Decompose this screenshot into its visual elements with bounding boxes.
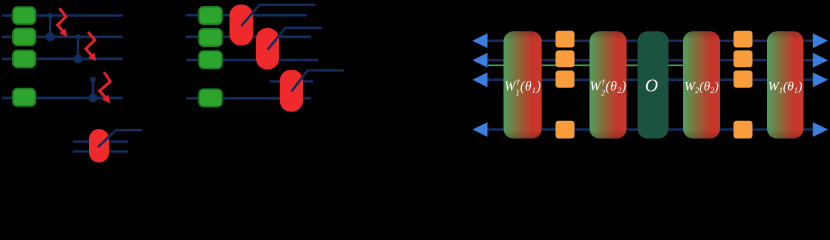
kraus square column2 s1 — [734, 31, 753, 48]
output arrow 4 — [813, 122, 828, 137]
environment line 2 — [268, 28, 322, 50]
noise bolt 2 — [86, 32, 97, 61]
output arrow 2 — [813, 53, 828, 68]
svg-text:O: O — [645, 75, 658, 95]
unitary capsule W2 — [683, 31, 720, 138]
kraus square column2 s4 — [734, 121, 753, 139]
noisy channel capsule 3 (q(n-1)-qn) — [280, 70, 303, 112]
CZ connector 3 (q(n-1)-qn) — [89, 77, 98, 103]
kraus square column1 s3 — [556, 71, 575, 88]
svg-text:W2(θ2): W2(θ2) — [684, 79, 719, 96]
kraus square column2 s3 — [734, 71, 753, 88]
wire q1 — [2, 14, 123, 17]
unitary capsule W1dag — [504, 31, 542, 138]
kraus square column1 s4 — [556, 121, 575, 139]
observable capsule O — [638, 31, 669, 138]
legend environment line — [98, 130, 142, 147]
gate box U qn — [199, 89, 222, 106]
wire b1 — [486, 39, 813, 42]
unitary capsule W2dag — [590, 31, 627, 138]
CZ connector 2 (q2-q3) — [74, 34, 83, 63]
gate box U qn — [13, 89, 36, 106]
input arrow 4 — [473, 122, 488, 137]
gate box U q3 — [199, 51, 222, 68]
wire b2 — [486, 59, 813, 62]
wire q2 — [186, 35, 311, 38]
noise bolt 3 — [100, 72, 111, 103]
wire qn — [186, 97, 311, 100]
wire q1 — [186, 14, 307, 17]
input arrow 2 — [473, 53, 488, 68]
wire q3 — [2, 57, 123, 60]
kraus square column1 s1 — [556, 31, 575, 48]
wire b4 — [486, 128, 813, 131]
noise bolt 1 — [58, 8, 68, 37]
wire q2 — [2, 35, 123, 38]
gate box U q1 — [199, 7, 222, 24]
kraus square column2 s2 — [734, 50, 753, 67]
svg-text:W1(θ1): W1(θ1) — [768, 79, 803, 96]
input arrow 3 — [473, 72, 488, 87]
wire b3 — [486, 79, 813, 82]
gate box U q2 — [13, 28, 36, 45]
legend noisy-gate capsule — [89, 129, 109, 163]
wire qn — [2, 97, 123, 100]
legend wire a — [73, 140, 129, 142]
output arrow 3 — [813, 72, 828, 87]
noisy channel capsule 2 (q2-q3) — [256, 28, 279, 70]
gate box U q3 — [13, 50, 36, 67]
kraus square column1 s2 — [556, 50, 575, 67]
wire q(n-1) stub — [270, 80, 313, 82]
input arrow 1 — [473, 33, 488, 48]
output arrow 1 — [813, 33, 828, 48]
CZ connector 1 (q1-q2) — [46, 13, 55, 42]
gate box U q2 — [199, 29, 222, 46]
environment line 1 — [241, 5, 315, 26]
environment line 3 — [291, 70, 344, 91]
legend wire b — [73, 150, 129, 152]
wire q3 — [186, 59, 318, 62]
gate box U q1 — [13, 7, 36, 24]
green bond line — [488, 64, 684, 66]
noisy channel capsule 1 (q1-q2) — [230, 5, 254, 46]
unitary capsule W1 — [767, 31, 804, 138]
